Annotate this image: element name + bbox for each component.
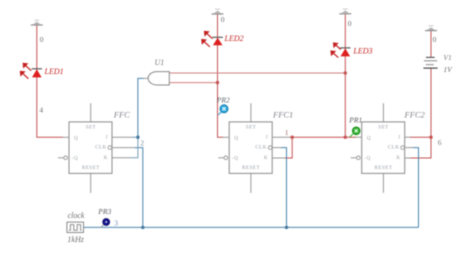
svg-text:Q: Q — [74, 135, 78, 141]
svg-text:CLK: CLK — [388, 145, 400, 151]
svg-text:V1: V1 — [443, 53, 451, 62]
svg-text:RESET: RESET — [242, 165, 260, 171]
svg-text:0: 0 — [433, 35, 437, 44]
svg-text:SET: SET — [86, 124, 97, 130]
svg-text:CLK: CLK — [255, 145, 267, 151]
svg-text:U1: U1 — [155, 58, 165, 67]
svg-text:CLK: CLK — [95, 145, 107, 151]
svg-text:K: K — [396, 155, 400, 161]
svg-text:Q: Q — [367, 135, 371, 141]
svg-text:FFC1: FFC1 — [272, 110, 293, 120]
svg-text:4: 4 — [39, 106, 43, 115]
svg-text:LED3: LED3 — [352, 47, 372, 56]
svg-text:K: K — [264, 155, 268, 161]
svg-text:3: 3 — [114, 219, 118, 228]
svg-text:-Q: -Q — [365, 156, 371, 162]
svg-text:0: 0 — [221, 15, 225, 24]
svg-text:FFC2: FFC2 — [404, 110, 426, 120]
svg-text:0: 0 — [348, 19, 352, 28]
svg-text:-Q: -Q — [232, 156, 238, 162]
svg-text:SET: SET — [246, 124, 257, 130]
svg-text:LED2: LED2 — [224, 34, 244, 43]
svg-text:FFC: FFC — [113, 110, 130, 120]
svg-text:J: J — [105, 135, 107, 141]
svg-text:Q: Q — [234, 135, 238, 141]
svg-text:1kHz: 1kHz — [67, 235, 84, 244]
svg-text:6: 6 — [438, 138, 442, 147]
svg-text:clock: clock — [68, 211, 85, 220]
svg-text:PR1: PR1 — [348, 116, 362, 125]
svg-text:PR3: PR3 — [97, 207, 111, 216]
svg-text:0: 0 — [40, 35, 44, 44]
svg-text:2: 2 — [140, 139, 144, 148]
svg-text:1: 1 — [285, 128, 289, 137]
svg-text:-Q: -Q — [72, 156, 78, 162]
svg-text:J: J — [398, 135, 400, 141]
svg-text:1V: 1V — [443, 65, 453, 74]
svg-text:K: K — [104, 155, 108, 161]
svg-text:SET: SET — [378, 124, 389, 130]
svg-text:RESET: RESET — [375, 165, 393, 171]
svg-text:PR2: PR2 — [216, 95, 230, 104]
svg-text:LED1: LED1 — [44, 67, 64, 76]
svg-text:RESET: RESET — [82, 165, 100, 171]
svg-text:J: J — [266, 135, 268, 141]
